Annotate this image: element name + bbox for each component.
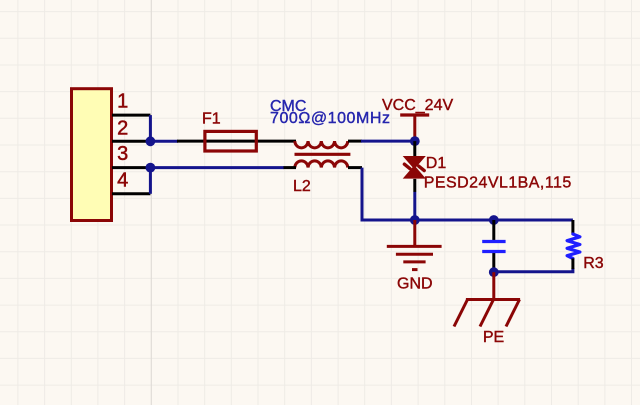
pin 3 bbox=[112, 166, 150, 169]
resistor R3 zigzag bbox=[567, 234, 580, 259]
pin number 1 bbox=[117, 91, 128, 113]
capacitor C1 plates bbox=[482, 242, 505, 252]
junction capacitor bottom node bbox=[489, 267, 499, 277]
junction pin3 node bbox=[146, 163, 156, 173]
svg-text:PE: PE bbox=[483, 329, 504, 346]
wire capacitor bottom to R3 bottom bbox=[494, 268, 573, 272]
wire CMC to VCC junction bbox=[361, 140, 415, 143]
label PE bbox=[483, 329, 504, 346]
CMC upper winding L2 bbox=[295, 141, 348, 148]
ground PE symbol bbox=[454, 272, 520, 326]
label CMC bbox=[270, 98, 306, 115]
pin number 4 bbox=[117, 169, 128, 191]
svg-text:1: 1 bbox=[117, 91, 128, 113]
svg-text:L2: L2 bbox=[293, 178, 311, 195]
connector J1 body bbox=[72, 89, 112, 221]
fuse F1 body bbox=[205, 131, 256, 151]
power VCC_24V symbol bbox=[400, 115, 429, 140]
junction capacitor top node bbox=[489, 215, 499, 225]
wire CMC lower to bottom bus bbox=[362, 168, 573, 220]
pin 2 bbox=[112, 140, 150, 143]
diode D1 top pin bbox=[413, 141, 416, 156]
svg-text:VCC_24V: VCC_24V bbox=[382, 97, 453, 114]
svg-text:700Ω@100MHz: 700Ω@100MHz bbox=[270, 110, 391, 127]
junction pin2 node bbox=[146, 136, 156, 146]
pin 4 bbox=[112, 192, 150, 195]
pin number 2 bbox=[117, 118, 128, 140]
junction GND node bbox=[410, 215, 420, 225]
junction VCC node bbox=[410, 136, 420, 146]
label D1 bbox=[426, 155, 447, 172]
svg-text:3: 3 bbox=[117, 143, 128, 165]
capacitor C1 leads bbox=[492, 220, 495, 272]
fuse F1 lead (black through line) bbox=[177, 140, 296, 143]
svg-text:F1: F1 bbox=[202, 110, 221, 127]
svg-text:PESD24VL1BA,115: PESD24VL1BA,115 bbox=[424, 175, 572, 192]
resistor R3 top lead bbox=[571, 220, 574, 235]
label PESD24VL1BA,115 bbox=[424, 175, 572, 192]
CMC upper right pin bbox=[348, 140, 362, 143]
svg-text:4: 4 bbox=[117, 169, 128, 191]
pin 1 bbox=[112, 114, 150, 117]
label 700ohm bbox=[270, 110, 391, 127]
CMC lower pins (black) bbox=[284, 166, 363, 169]
label L2 bbox=[293, 178, 311, 195]
wire pin1 to pin2 bbox=[149, 115, 152, 141]
wire top row to fuse bbox=[150, 140, 178, 143]
svg-text:D1: D1 bbox=[426, 155, 447, 172]
diode D1 bottom pin bbox=[413, 179, 416, 192]
pin number 3 bbox=[117, 143, 128, 165]
wire pin3 to pin4 bbox=[149, 168, 152, 194]
wire lower row to CMC bbox=[150, 166, 284, 169]
CMC core line bbox=[295, 153, 351, 156]
wire D1 to GND node bbox=[413, 192, 416, 220]
svg-text:R3: R3 bbox=[583, 255, 604, 272]
CMC lower winding L2 bbox=[295, 161, 348, 168]
diode D1 TVS body bbox=[403, 156, 426, 179]
ground GND symbol bbox=[387, 220, 442, 270]
svg-text:GND: GND bbox=[397, 276, 433, 293]
label VCC_24V bbox=[382, 97, 453, 114]
svg-text:2: 2 bbox=[117, 118, 128, 140]
label R3 bbox=[583, 255, 604, 272]
label F1 bbox=[202, 110, 221, 127]
label GND bbox=[397, 276, 433, 293]
resistor R3 bottom lead bbox=[571, 258, 574, 269]
